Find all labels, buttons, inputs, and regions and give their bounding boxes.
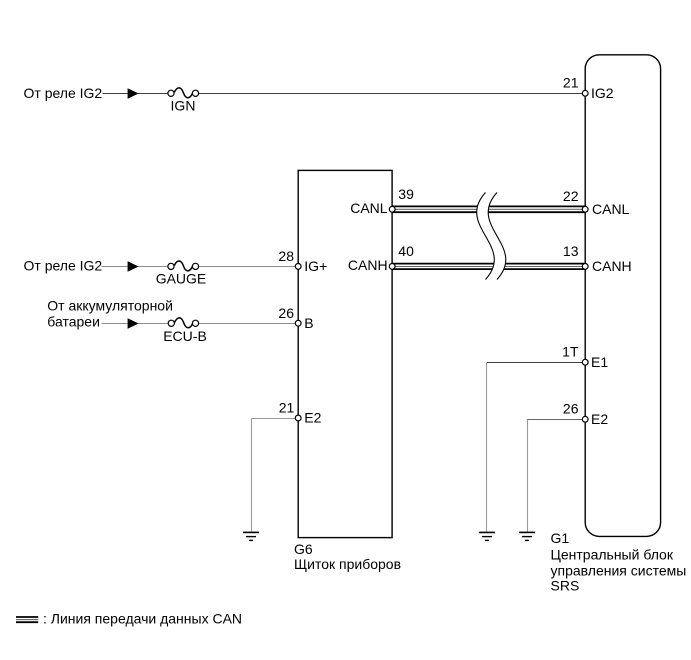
- pin 40 CANH circle: [389, 264, 395, 270]
- svg-text:40: 40: [398, 243, 414, 259]
- arrow (from IG2 relay): [128, 88, 139, 98]
- svg-text:CANL: CANL: [350, 200, 388, 216]
- pin 26 B circle: [295, 320, 301, 326]
- svg-text:26: 26: [563, 401, 579, 417]
- svg-text:26: 26: [278, 305, 294, 321]
- wire GAUGE row: [102, 266, 296, 268]
- wire break symbol (S-curves): [477, 193, 506, 280]
- svg-text:G6: G6: [294, 541, 313, 557]
- svg-text:21: 21: [563, 74, 579, 90]
- svg-text:IG2: IG2: [591, 85, 614, 101]
- ground (SRS E1): [479, 532, 495, 540]
- pin 39 CANL circle: [389, 206, 395, 212]
- fuse ECU-B: [168, 318, 198, 328]
- svg-text:батареи: батареи: [47, 314, 100, 330]
- svg-text:Щиток приборов: Щиток приборов: [294, 556, 401, 572]
- CAN line CANL (triple line): [392, 206, 585, 212]
- svg-text:13: 13: [563, 243, 579, 259]
- pin 13 CANH circle: [582, 264, 588, 270]
- connector box G1 (SRS ECU): [585, 55, 660, 537]
- wire E2 (SRS) to ground: [527, 420, 583, 532]
- fuse GAUGE: [168, 261, 199, 271]
- wire ECU-B row: [102, 323, 296, 325]
- CAN line CANH (triple line): [392, 264, 585, 270]
- svg-text:CANH: CANH: [592, 258, 632, 274]
- svg-text:Центральный блок: Центральный блок: [551, 546, 674, 562]
- pin 1T E1 circle: [582, 359, 588, 365]
- svg-text:22: 22: [563, 188, 579, 204]
- svg-text:ECU-B: ECU-B: [163, 328, 207, 344]
- ground (G6 E2): [243, 532, 259, 540]
- svg-text:GAUGE: GAUGE: [156, 271, 207, 287]
- svg-text:: Линия передачи данных CAN: : Линия передачи данных CAN: [43, 611, 242, 627]
- svg-text:От аккумуляторной: От аккумуляторной: [47, 297, 173, 313]
- pin 21 E2 circle: [295, 415, 301, 421]
- fuse IGN: [168, 88, 199, 98]
- svg-text:CANL: CANL: [592, 201, 630, 217]
- arrow (from IG2 relay, row 2): [128, 261, 139, 271]
- pin 28 IG+ circle: [295, 264, 301, 270]
- wire E1 (SRS) to ground: [487, 363, 583, 532]
- svg-text:SRS: SRS: [551, 578, 580, 594]
- svg-text:От реле IG2: От реле IG2: [24, 258, 103, 274]
- wire E2 (G6) to ground: [252, 419, 296, 532]
- svg-text:G1: G1: [551, 530, 570, 546]
- pin 22 CANL circle: [582, 206, 588, 212]
- svg-text:IG+: IG+: [304, 258, 327, 274]
- svg-text:E2: E2: [304, 409, 321, 425]
- legend CAN symbol (triple line): [16, 617, 38, 622]
- svg-text:28: 28: [278, 248, 294, 264]
- pin 21 IG2 circle: [582, 90, 588, 96]
- svg-text:управления системы: управления системы: [551, 562, 687, 578]
- svg-text:E1: E1: [591, 354, 608, 370]
- svg-text:39: 39: [398, 186, 414, 202]
- svg-text:E2: E2: [591, 411, 608, 427]
- svg-text:1T: 1T: [562, 344, 579, 360]
- arrow (from battery): [128, 318, 139, 328]
- svg-text:21: 21: [279, 399, 295, 415]
- svg-text:IGN: IGN: [171, 98, 196, 114]
- wire IGN row: [103, 93, 583, 95]
- pin 26 E2 circle: [582, 416, 588, 422]
- connector box G6 (instrument cluster): [298, 170, 392, 537]
- svg-text:От реле IG2: От реле IG2: [24, 85, 103, 101]
- svg-text:CANH: CANH: [348, 257, 388, 273]
- ground (SRS E2): [519, 532, 535, 540]
- svg-text:B: B: [304, 315, 313, 331]
